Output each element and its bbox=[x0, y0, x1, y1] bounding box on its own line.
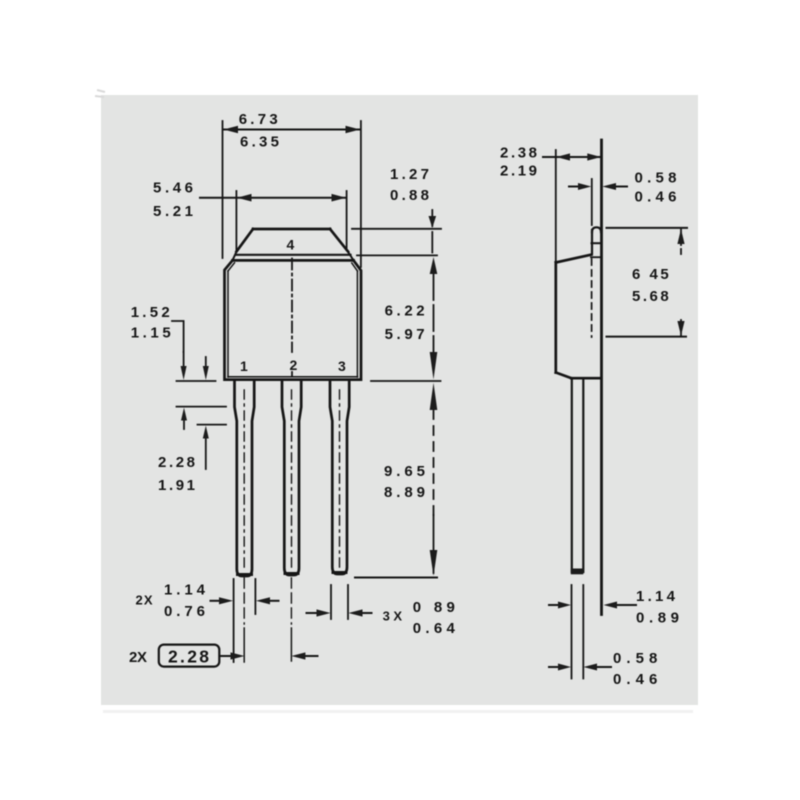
svg-text:4: 4 bbox=[287, 237, 295, 253]
dim 6.45 shaft bottom bbox=[680, 320, 682, 336]
arrow 0.58 bottom left-pointing bbox=[584, 664, 598, 671]
arrow 6.73 right bbox=[346, 126, 361, 134]
dim 2.38/2.19 line bbox=[543, 156, 601, 158]
lead 1 tip thick edge bbox=[238, 573, 252, 576]
arrow 1.14 bottom right-pointing bbox=[219, 597, 233, 604]
lead 1 outline bbox=[235, 381, 255, 576]
down-arrow shaft x=183.6 bbox=[183, 352, 185, 366]
faint scan smudge top-left of panel bbox=[95, 90, 105, 97]
svg-text:0.88: 0.88 bbox=[390, 187, 429, 204]
arrow 2.38 right bbox=[587, 153, 601, 160]
center line of body (dash-dot) bbox=[291, 259, 293, 353]
arrow 0.58 bottom right-pointing bbox=[558, 664, 571, 671]
side lead left extension bbox=[571, 585, 573, 679]
lead 3 center line bbox=[339, 390, 341, 570]
side lead right extension bbox=[582, 585, 584, 679]
left side: shoulder extension line B bbox=[177, 406, 227, 408]
arrow 6.45 down bbox=[677, 321, 684, 336]
side body bottom edge bbox=[571, 377, 600, 380]
svg-text:3: 3 bbox=[338, 358, 346, 374]
arrow 6.73 left bbox=[224, 126, 239, 134]
svg-text:0.58: 0.58 bbox=[635, 170, 677, 187]
arrow 5.46 left bbox=[237, 194, 252, 202]
dim 6.45 shaft top dashes bbox=[680, 249, 682, 258]
side lead right edge bbox=[582, 378, 584, 572]
collar right end diagonal bbox=[348, 252, 353, 260]
bottom: lead1 right edge extension bbox=[254, 579, 256, 614]
arrow 0.58 top left-pointing bbox=[602, 183, 616, 190]
side body bottom chamfer bbox=[556, 373, 572, 379]
arrow 0.89 bottom right-pointing bbox=[317, 609, 331, 616]
body inner line bottom bbox=[228, 376, 358, 378]
arrow 5.46 right bbox=[332, 194, 347, 202]
lead 2 outline bbox=[282, 381, 301, 575]
up-arrow shaft x=205.8 below C bbox=[205, 438, 207, 469]
svg-text:1: 1 bbox=[240, 358, 248, 374]
lead 2 center line bbox=[291, 390, 293, 570]
collar line (body top) bbox=[233, 259, 354, 262]
dim 9.65 vertical dashed shaft bbox=[433, 410, 435, 517]
arrow boxed-dim left-pointing at lead2 center bbox=[291, 652, 305, 659]
svg-text:2.19: 2.19 bbox=[500, 163, 537, 180]
dim 1.14/0.76 left arrow line bbox=[211, 600, 223, 602]
dim 1.14/0.76 right arrow tail bbox=[268, 600, 279, 602]
svg-text:2.28: 2.28 bbox=[168, 646, 209, 666]
leader from 1.15 text bbox=[172, 321, 184, 352]
side tab notch line bbox=[592, 242, 602, 244]
collar left end diagonal bbox=[233, 252, 237, 260]
arrow 1.52 up at 184 bbox=[181, 408, 187, 421]
svg-text:0.89: 0.89 bbox=[636, 609, 679, 626]
dim 1.14 side: left arrow line bbox=[549, 604, 559, 606]
arrow 2.28L up at 205.8 bbox=[203, 426, 209, 439]
dim 1.14 side: right arrow tail bbox=[617, 604, 636, 606]
svg-text:9.65: 9.65 bbox=[384, 463, 425, 480]
lead tips extension line bbox=[355, 577, 437, 579]
dim 0.89/0.64 left arrow line bbox=[307, 612, 320, 614]
bottom: lead3 left edge extension bbox=[330, 585, 332, 619]
dim 0.58 top: left arrow line bbox=[569, 186, 579, 188]
tab top edge bbox=[253, 228, 330, 231]
dim 0.89/0.64 right arrow tail bbox=[360, 612, 372, 614]
boxed dimension frame bbox=[159, 645, 220, 667]
arrow 2.38 left bbox=[556, 153, 570, 160]
arrow 1.52 down at 183.6 bbox=[181, 366, 187, 380]
svg-text:6.35: 6.35 bbox=[240, 133, 279, 150]
body inner line right chamfer bbox=[352, 263, 358, 271]
right vertical dim line between tab exts bbox=[431, 232, 433, 253]
body inner line left chamfer bbox=[228, 263, 235, 271]
svg-text:2.38: 2.38 bbox=[500, 144, 537, 161]
arrow 6.22 up bbox=[430, 257, 438, 274]
dim 2.38 extension line bbox=[555, 150, 557, 261]
svg-text:5.97: 5.97 bbox=[385, 326, 425, 343]
side tab left edge bbox=[591, 230, 593, 254]
arrow 1.14 bottom left-pointing bbox=[256, 597, 270, 604]
svg-text:2: 2 bbox=[290, 357, 298, 373]
bottom: lead3 right edge extension bbox=[347, 585, 349, 619]
side lead left edge bbox=[571, 378, 573, 572]
side hidden edge (dashed) bbox=[591, 259, 593, 337]
svg-text:2X: 2X bbox=[129, 649, 147, 666]
dim 0.58 bottom: left arrow line bbox=[549, 666, 559, 668]
dim 6.45 top extension line bbox=[607, 227, 688, 229]
svg-text:6.73: 6.73 bbox=[239, 111, 278, 128]
svg-text:6 45: 6 45 bbox=[632, 266, 669, 283]
svg-text:1.91: 1.91 bbox=[158, 477, 195, 494]
side body top slant bbox=[556, 255, 592, 263]
bottom: lead1 centerline extension bbox=[243, 578, 245, 624]
body bottom extension line right bbox=[371, 380, 441, 382]
svg-text:0.58: 0.58 bbox=[613, 650, 657, 667]
dim 1.27/0.88 extension bottom (tab base) bbox=[357, 254, 437, 256]
up-arrow shaft x=184 below B bbox=[183, 420, 185, 429]
boxed dim right arrow tail bbox=[303, 655, 318, 657]
gray drawing panel bbox=[101, 95, 698, 705]
tab right slant bbox=[330, 229, 348, 252]
arrow 0.58 top right-pointing bbox=[578, 183, 591, 190]
arrow 1.27 down (above tab-top ext) bbox=[429, 216, 437, 228]
svg-text:0.46: 0.46 bbox=[635, 188, 677, 205]
dim 0.58 bottom: right arrow tail bbox=[597, 666, 611, 668]
svg-text:2X: 2X bbox=[136, 593, 153, 608]
tab left slant bbox=[237, 229, 254, 252]
body inner line right edge bbox=[356, 271, 358, 377]
svg-text:2.28: 2.28 bbox=[158, 454, 195, 471]
dim 9.65 lower shaft bbox=[433, 515, 435, 573]
side body top edge behind tab bbox=[591, 256, 601, 258]
tab base line bbox=[236, 254, 351, 256]
svg-text:0.64: 0.64 bbox=[413, 620, 456, 637]
faint scan streak below panel bbox=[103, 710, 693, 713]
arrow 1.14 side right-pointing bbox=[558, 602, 571, 609]
lead 3 outline bbox=[330, 381, 349, 574]
dim 0.58 top: right arrow tail bbox=[615, 186, 627, 188]
arrow 2.28L down at 205.8 bbox=[203, 366, 209, 380]
lead 1 center line bbox=[243, 390, 245, 570]
dim 6.73 right extension line bbox=[360, 121, 362, 267]
svg-text:5.46: 5.46 bbox=[153, 180, 193, 197]
arrow 1.14 side left-pointing bbox=[604, 602, 618, 609]
svg-text:1.14: 1.14 bbox=[636, 588, 676, 605]
dim 5.46 left extension line bbox=[235, 191, 237, 250]
body inner line left edge bbox=[227, 271, 229, 377]
left side: shoulder extension line C bbox=[198, 424, 227, 426]
right vertical dim line upper shaft bbox=[431, 210, 433, 226]
arrow 9.65 down bbox=[430, 550, 438, 576]
dim 6.45 shaft top bbox=[680, 230, 682, 246]
arrow 0.89 bottom left-pointing bbox=[349, 609, 363, 616]
left side: body bottom extension line bbox=[177, 380, 216, 382]
svg-text:0.46: 0.46 bbox=[613, 671, 657, 688]
svg-text:1.52: 1.52 bbox=[131, 304, 170, 321]
dim 5.46 right extension line bbox=[346, 191, 348, 250]
side lead tip bar bbox=[571, 569, 584, 575]
dim 0.58 top extension line bbox=[591, 179, 593, 225]
lead 2 tip thick edge bbox=[285, 572, 298, 575]
dim 6.73 left extension line bbox=[222, 121, 224, 258]
arrow 9.65 up bbox=[430, 383, 438, 410]
dim 6.22/9.65 vertical shaft mid bbox=[433, 274, 435, 352]
svg-text:1.14: 1.14 bbox=[164, 582, 206, 599]
side body front edge bbox=[554, 263, 557, 373]
bottom: lead1 left edge extension bbox=[233, 579, 235, 662]
svg-text:3X: 3X bbox=[383, 609, 403, 624]
bottom: lead2 centerline extension bbox=[290, 578, 292, 624]
side tab top arc bbox=[592, 227, 601, 232]
svg-text:0 89: 0 89 bbox=[413, 599, 455, 616]
svg-text:0.76: 0.76 bbox=[164, 603, 205, 620]
dim 1.27/0.88 extension top (tab top) bbox=[352, 228, 441, 230]
arrow 6.45 up bbox=[677, 229, 684, 244]
svg-text:6.22: 6.22 bbox=[385, 303, 425, 320]
lead 3 tip thick edge bbox=[333, 571, 346, 574]
arrow boxed-dim right-pointing at lead1 center bbox=[231, 652, 245, 659]
svg-text:5.21: 5.21 bbox=[153, 203, 193, 220]
body outline outer bbox=[225, 260, 362, 379]
svg-text:1.15: 1.15 bbox=[131, 325, 171, 342]
svg-text:8.89: 8.89 bbox=[384, 484, 425, 501]
arrow 6.22 down bbox=[430, 352, 438, 380]
dim 6.45 bottom extension line bbox=[607, 336, 687, 338]
svg-text:1.27: 1.27 bbox=[390, 166, 429, 183]
down-arrow shaft x=205.8 bbox=[205, 357, 207, 366]
boxed dim leader line bbox=[221, 655, 235, 657]
datum back line bbox=[600, 140, 603, 615]
svg-text:5.68: 5.68 bbox=[632, 288, 669, 305]
dim 5.46/5.21 leader+line bbox=[200, 197, 347, 199]
dim 6.73/6.35 line bbox=[223, 129, 361, 131]
